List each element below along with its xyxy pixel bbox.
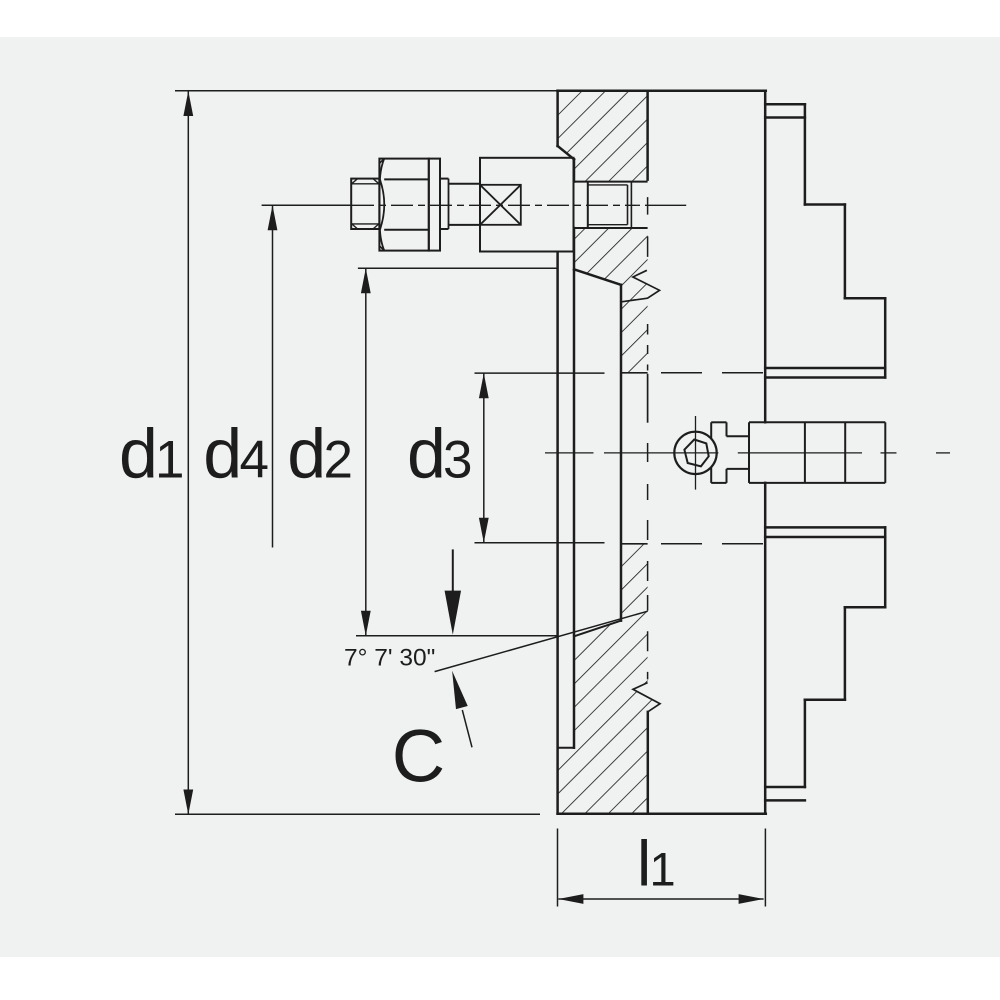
svg-text:7° 7' 30": 7° 7' 30" <box>344 645 435 672</box>
svg-text:2: 2 <box>324 431 353 490</box>
svg-text:d: d <box>119 415 158 493</box>
svg-text:C: C <box>392 714 445 797</box>
svg-text:d: d <box>287 415 326 493</box>
svg-text:1: 1 <box>650 843 676 896</box>
svg-text:1: 1 <box>155 431 184 490</box>
svg-text:d: d <box>407 415 446 493</box>
svg-text:4: 4 <box>240 431 269 490</box>
svg-text:d: d <box>203 415 242 493</box>
svg-text:3: 3 <box>443 431 472 490</box>
